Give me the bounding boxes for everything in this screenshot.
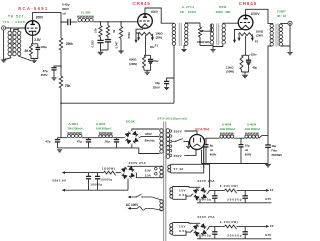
svg-text:200V 25A: 200V 25A: [129, 161, 147, 165]
resistor 600ohm U2: [143, 56, 146, 68]
wire B+ mid rail: [61, 102, 174, 104]
svg-text:F2: F2: [270, 224, 274, 228]
capacitor 100u cathode U1: [37, 44, 39, 47]
svg-text:150Ω : 20K: 150Ω : 20K: [215, 10, 231, 14]
svg-text:20000µ: 20000µ: [197, 234, 212, 238]
wire T3 primary bottom to B+: [268, 46, 273, 145]
capacitor 40u U3: [248, 55, 250, 59]
svg-text:3K : 16: 3K : 16: [277, 14, 286, 18]
node cathode U2: [144, 54, 151, 56]
wire wiper U3 down: [245, 36, 247, 56]
transformer TK527 secondary 2: [17, 31, 20, 35]
resistor branch3: [120, 22, 122, 27]
svg-text:10H 200mA: 10H 200mA: [245, 127, 261, 131]
wire U4 filament legs: [196, 146, 204, 168]
svg-text:40µ: 40µ: [252, 66, 257, 70]
transformer T2 core: [217, 23, 219, 44]
wire 5V to 5R4 filament: [169, 146, 203, 173]
wire D2 bottom rail: [64, 179, 128, 190]
choke CH1 winding: [67, 135, 70, 138]
winding loops F2: [170, 224, 173, 227]
capacitor 40u film: [265, 144, 271, 146]
transformer TK527 primary: [8, 31, 11, 35]
svg-text:F1: F1: [270, 188, 274, 192]
capacitor 20000u b F2: [244, 226, 246, 231]
tube U1 RCA-5691 envelope: [25, 21, 40, 36]
bridge D F2: [193, 224, 206, 237]
wire dc+ out F2: [237, 225, 267, 227]
svg-text:80mAdc: 80mAdc: [145, 139, 156, 143]
svg-text:1050V: 1050V: [251, 12, 261, 16]
wire TK527 bottom diagonal: [4, 56, 32, 61]
svg-text:2.5A: 2.5A: [145, 173, 152, 177]
wire D1 ac top: [132, 129, 160, 131]
svg-text:9.7V: 9.7V: [265, 233, 271, 237]
tube U4 internals: [194, 138, 201, 143]
capacitor 20000u a F2: [214, 226, 216, 231]
wire 850V top to 5R4 plate: [184, 131, 197, 134]
tube U1 internals: [30, 21, 35, 24]
wire psu gnd rail right: [202, 150, 269, 164]
ground B+ chain: [265, 164, 271, 166]
winding PT W3 primary: [160, 200, 163, 204]
svg-text:0.2Ω(3W): 0.2Ω(3W): [220, 184, 239, 188]
svg-text:5K : 150Ω: 5K : 150Ω: [180, 10, 196, 14]
svg-text:200V: 200V: [36, 15, 44, 19]
wire T1 secondary bottom: [184, 45, 185, 48]
choke CH2 core: [99, 132, 113, 134]
wire B+ rail segs: [206, 135, 268, 138]
ground cathode U2: [145, 72, 150, 74]
svg-text:20000µ: 20000µ: [227, 234, 242, 238]
ground cathode U1: [32, 60, 37, 62]
svg-text:DG-2K: DG-2K: [126, 119, 136, 123]
choke CH3 core: [220, 133, 234, 135]
ground T3 secondary: [287, 53, 292, 55]
capacitor 0.047: [105, 39, 111, 41]
tap mid 2: [169, 145, 171, 147]
wire winding to bridge top F2: [171, 223, 200, 224]
svg-text:10H 200mA: 10H 200mA: [67, 127, 83, 131]
wire dc+ out F1: [237, 189, 267, 191]
arrow bias U2: [135, 40, 138, 43]
svg-text:10µ: 10µ: [155, 81, 160, 85]
resistor 10k: [100, 22, 102, 26]
wire D1 dc-: [131, 144, 133, 148]
wire input down: [3, 30, 5, 59]
capacitor 10000u b: [97, 173, 99, 176]
svg-text:10H 200mA: 10H 200mA: [96, 127, 112, 131]
svg-text:600V: 600V: [62, 7, 70, 11]
node cathode U1: [31, 43, 38, 45]
resistor 1.5k U3: [240, 56, 243, 70]
winding loops F1: [170, 188, 173, 191]
wire dc- rail F2: [197, 236, 271, 238]
wire T3 primary top: [271, 22, 273, 25]
svg-text:850V: 850V: [174, 129, 183, 133]
tube U3 internals: [243, 16, 247, 19]
svg-text:oil: oil: [210, 148, 213, 152]
tap switch: [169, 140, 171, 142]
input terminal J1: [2, 26, 6, 30]
svg-text:oil: oil: [245, 148, 248, 152]
ground 47u: [51, 78, 56, 80]
wire T2 secondary top: [223, 22, 238, 25]
arrow mains bottom: [128, 207, 131, 210]
wire bias feed U2: [136, 29, 143, 40]
capacitor 10000u a: [88, 173, 90, 176]
svg-text:F2: F2: [255, 40, 259, 44]
wire U3 plate: [246, 9, 271, 23]
resistor branch2: [107, 22, 109, 26]
arrow pot U3 right: [251, 38, 254, 41]
svg-text:A-4004: A-4004: [222, 122, 232, 126]
svg-text:1Ω(6W): 1Ω(6W): [102, 167, 116, 171]
wire winding to bridge top F1: [171, 187, 200, 188]
svg-text:340V: 340V: [145, 132, 152, 136]
tube U2 envelope: [138, 14, 153, 29]
wire W2 top: [128, 165, 162, 168]
svg-text:CR845: CR845: [239, 1, 257, 7]
ground T1: [181, 49, 186, 51]
svg-text:(50W): (50W): [226, 69, 234, 73]
choke CH2 winding: [99, 135, 102, 138]
capacitor 10u 250V: [167, 78, 174, 81]
svg-text:7N-W: 7N-W: [219, 5, 227, 9]
svg-text:TK 527: TK 527: [8, 14, 24, 18]
svg-text:A-4004: A-4004: [68, 122, 78, 126]
arrow F2: [266, 225, 269, 228]
capacitor 20000u a F1: [214, 190, 216, 195]
capacitor 47u a: [57, 138, 59, 140]
wire U4 B+ out: [204, 138, 206, 140]
wire winding to bridge left F2: [171, 230, 192, 236]
inductor L1 core: [77, 16, 94, 18]
svg-text:200V 25A: 200V 25A: [197, 179, 215, 183]
svg-text:RCA-5691: RCA-5691: [18, 6, 48, 11]
wire T2 secondary bottom: [213, 44, 223, 46]
svg-text:AC 100V: AC 100V: [126, 203, 139, 207]
svg-text:47µ: 47µ: [45, 140, 50, 144]
capacitor 20000u b F1: [244, 190, 246, 195]
wire U2 plate: [145, 8, 174, 23]
ground 10u: [164, 87, 169, 89]
svg-text:200V 25A: 200V 25A: [197, 215, 215, 219]
arrow bias U3: [233, 40, 236, 43]
svg-text:A-4714: A-4714: [182, 5, 194, 9]
svg-text:47µ: 47µ: [77, 140, 82, 144]
output terminal: [288, 21, 292, 25]
wire cathode bottom U1: [31, 53, 38, 60]
choke CH1 core: [67, 132, 81, 134]
wire cathode bottom U2: [144, 70, 151, 71]
tube U2 internals: [143, 14, 147, 17]
bridge D1: [125, 131, 138, 144]
tap mid 3: [169, 149, 171, 151]
wire cathode bottom U3: [242, 72, 249, 74]
wire b+ low rail: [58, 137, 125, 139]
arrow 6V top: [62, 171, 65, 174]
wire dc- rail F1: [197, 200, 271, 202]
bridge D F1: [193, 188, 206, 201]
svg-text:100µ: 100µ: [40, 45, 47, 49]
wire winding to bridge left F1: [171, 194, 192, 200]
svg-text:10V: 10V: [179, 188, 186, 192]
pot U2 end leads: [139, 34, 153, 38]
winding PT W2 6.3V: [160, 166, 163, 170]
capacitor 56u U2: [150, 55, 152, 59]
choke CH4 core: [245, 133, 259, 135]
ground branch3: [118, 51, 123, 53]
svg-text:600Ω: 600Ω: [129, 57, 137, 61]
tap 850V bottom: [169, 154, 171, 156]
wire T3 secondary bottom: [281, 23, 290, 52]
svg-text:350V: 350V: [41, 73, 49, 77]
svg-text:20000µ: 20000µ: [227, 198, 242, 202]
wire wiper U2 down: [145, 35, 147, 55]
svg-text:9.7V: 9.7V: [265, 197, 271, 201]
arrow pot U2 right: [151, 37, 154, 40]
transformer T3 primary: [270, 24, 273, 27]
svg-text:40µ: 40µ: [271, 144, 276, 148]
arrow mains top: [128, 196, 131, 199]
pot hum balance U2: [138, 32, 153, 37]
svg-text:STU-3612(Special): STU-3612(Special): [157, 116, 187, 120]
svg-text:6.3V: 6.3V: [145, 168, 151, 172]
svg-text:47µ: 47µ: [43, 69, 48, 73]
arrow pot U2 left: [137, 37, 140, 40]
transformer T2 secondary: [222, 24, 225, 28]
wire U1 plate to coupling cap: [33, 12, 68, 22]
capacitor C1 0.45u coupling: [68, 19, 71, 25]
transformer T2 primary: [210, 24, 213, 28]
svg-text:(2W): (2W): [256, 33, 262, 37]
svg-text:0.2Ω(3W): 0.2Ω(3W): [220, 220, 239, 224]
switch mains: [129, 197, 162, 200]
ground pot: [210, 50, 215, 52]
pot U3 end leads: [239, 34, 252, 38]
wire psu gnd rail: [58, 148, 160, 154]
wire L1 to grid network: [93, 21, 138, 23]
svg-text:+125v: +125v: [249, 53, 257, 57]
capacitor 20u c: [116, 138, 118, 140]
bridge D2: [121, 166, 134, 179]
svg-text:20000µ: 20000µ: [197, 198, 212, 202]
capacitor 10u 600V: [240, 138, 242, 144]
resistor 3K cathode U1: [30, 45, 33, 56]
ground branches: [98, 52, 104, 54]
svg-text:250k: 250k: [66, 42, 73, 46]
capacitor 47u b: [88, 138, 90, 140]
node B+ vert: [60, 65, 62, 67]
wire W2 bottom: [136, 173, 162, 178]
choke CH3 winding: [220, 135, 223, 138]
svg-text:f50 : 180K: f50 : 180K: [3, 20, 26, 24]
svg-text:5Y 4A: 5Y 4A: [174, 167, 185, 171]
svg-text:F1: F1: [155, 44, 159, 48]
transformer PT core: [164, 122, 166, 241]
transformer T1 core: [179, 23, 181, 46]
svg-text:A-4004: A-4004: [247, 122, 257, 126]
wire D2 dc left: [116, 172, 121, 174]
fuse mains: [129, 207, 137, 209]
svg-text:400V: 400V: [150, 10, 159, 14]
wire pot bottom: [200, 46, 213, 49]
ground switch: [186, 146, 190, 148]
arrow 6V bottom: [62, 189, 65, 192]
winding PT W4 HV: [166, 129, 169, 133]
switch HV: [172, 139, 183, 142]
wire 850V bottom to 5R4: [184, 149, 196, 155]
tube U4 envelope: [190, 135, 205, 150]
node branch joints: [100, 21, 102, 23]
svg-text:0.033: 0.033: [90, 40, 94, 48]
winding PT W1: [160, 129, 163, 133]
transformer TK527 secondary: [13, 31, 16, 35]
svg-text:100Ω(4W): 100Ω(4W): [197, 40, 210, 44]
resistor 0.2ohm F1: [225, 189, 237, 193]
arrow pot U3 left: [238, 38, 241, 41]
svg-text:8µ: 8µ: [210, 143, 214, 147]
svg-text:10H 200mA: 10H 200mA: [220, 127, 236, 131]
wire dc+ F2: [207, 226, 224, 229]
wire bias feed U3: [235, 30, 243, 41]
svg-text:3k: 3k: [112, 29, 116, 33]
node cathode U3: [242, 54, 249, 56]
svg-text:10000µ: 10000µ: [90, 183, 102, 187]
wire U1 cathode to bias: [32, 35, 34, 44]
resistor 250k plate load: [60, 22, 62, 38]
ground input: [1, 60, 6, 62]
svg-text:10k: 10k: [94, 28, 98, 33]
tap mid 1: [169, 135, 171, 137]
ground psu rail: [57, 150, 62, 152]
svg-text:500k: 500k: [127, 32, 131, 39]
transformer T1 secondary: [185, 24, 188, 27]
pot 100ohm interstage: [199, 23, 201, 27]
wire D1 ac right: [139, 136, 159, 139]
svg-text:10µ: 10µ: [245, 143, 250, 147]
wire T3 secondary top: [281, 22, 288, 25]
transformer T3 core: [276, 24, 278, 47]
svg-text:(2W): (2W): [156, 35, 162, 39]
svg-text:(20W): (20W): [129, 62, 137, 66]
svg-text:oil: oil: [63, 12, 67, 16]
svg-text:0.45µ: 0.45µ: [62, 3, 70, 7]
svg-text:20µ: 20µ: [105, 140, 110, 144]
arrow F1: [266, 189, 269, 192]
transformer TK527 core: [12, 31, 13, 56]
svg-text:5691 6V: 5691 6V: [52, 179, 67, 183]
svg-text:10000µ: 10000µ: [100, 177, 112, 181]
wire dc+ F1: [207, 190, 224, 193]
transformer T1 primary: [172, 24, 175, 27]
wire aux drop: [169, 164, 209, 187]
wire input to grid: [6, 27, 26, 29]
svg-text:56µ: 56µ: [153, 59, 158, 63]
resistor 0.2ohm F2: [225, 225, 237, 229]
svg-text:600V: 600V: [245, 152, 252, 156]
resistor 1ohm 6W: [104, 171, 116, 175]
svg-text:850V: 850V: [174, 154, 183, 158]
capacitor 8u 600V: [205, 138, 207, 144]
wire TK527 tops: [11, 28, 19, 31]
svg-text:CR845: CR845: [132, 1, 150, 7]
wire T1 secondary top: [185, 22, 200, 24]
transformer T3 secondary: [279, 24, 282, 27]
winding PT W5 5V: [168, 165, 171, 168]
choke CH4 winding: [245, 135, 248, 138]
svg-text:A-4004: A-4004: [96, 122, 106, 126]
svg-text:2.5V: 2.5V: [34, 38, 41, 42]
wire cap to inductor: [70, 21, 77, 23]
svg-text:YL-280: YL-280: [81, 11, 91, 15]
inductor L1 winding: [78, 18, 82, 21]
svg-text:75K: 75K: [65, 84, 72, 88]
tube U3 envelope: [238, 15, 253, 30]
capacitor 47u 350V: [54, 66, 61, 67]
svg-text:0.047: 0.047: [114, 41, 118, 49]
svg-text:10V: 10V: [179, 224, 186, 228]
capacitor 0.033: [97, 39, 103, 41]
tap 850V top: [169, 130, 171, 132]
wire T2 primary bottom: [212, 44, 214, 45]
pot hum balance U3: [239, 33, 254, 38]
svg-text:600V: 600V: [210, 152, 217, 156]
wire T1 primary bottom: [173, 45, 176, 103]
wire branch12 bottom: [101, 50, 109, 52]
ground cathode U3: [242, 75, 248, 77]
resistor 75K: [60, 66, 62, 76]
svg-text:250V: 250V: [153, 85, 161, 89]
pot wiper arrow: [201, 30, 204, 33]
svg-text:3500WV: 3500WV: [271, 153, 282, 157]
svg-text:RCA-5R4: RCA-5R4: [195, 127, 209, 131]
svg-text:Film: Film: [271, 148, 277, 152]
